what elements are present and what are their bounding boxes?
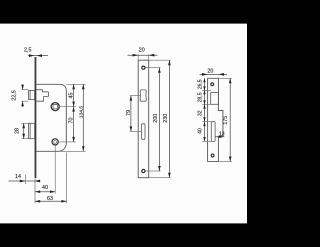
cylinder fixing hole <box>52 139 58 145</box>
top screw hole <box>142 66 145 69</box>
stacked dimension 56 <box>198 122 212 142</box>
latch opening (hourglass cutout) <box>140 90 146 101</box>
dimension 70 (spindle to cylinder hole) <box>69 107 75 142</box>
dimension 20 (faceplate width) <box>128 47 158 60</box>
dimension 45 (top to spindle center) <box>69 84 75 106</box>
faceplate (side, dark strip) <box>35 57 37 178</box>
svg-text:40: 40 <box>198 128 204 134</box>
svg-text:134,5: 134,5 <box>78 106 84 119</box>
centerline hole to dim line <box>59 141 77 143</box>
stacked dimension 32 <box>198 104 212 121</box>
dimension 40 (backset) <box>35 145 55 203</box>
svg-text:70: 70 <box>69 118 75 124</box>
dimension 175 (strike length) <box>219 78 232 161</box>
latch bolt head (left of faceplate) <box>29 90 35 99</box>
deadbolt opening (strike) <box>211 122 215 142</box>
dimension 2,5 (faceplate thickness) <box>24 47 48 57</box>
svg-text:175: 175 <box>223 116 229 125</box>
dimension 79 (latch to deadbolt centers) <box>126 96 142 132</box>
svg-text:22,5: 22,5 <box>11 90 17 101</box>
dimension 13 (lip) <box>216 132 225 138</box>
svg-text:20: 20 <box>207 68 213 74</box>
svg-text:28,5: 28,5 <box>198 92 204 102</box>
centerline spindle to dim line <box>60 106 76 108</box>
svg-text:26,5: 26,5 <box>198 79 204 89</box>
svg-text:2,5: 2,5 <box>24 47 32 53</box>
dimension 22,5 (latch height) <box>11 84 28 107</box>
deadbolt (left of faceplate) <box>29 123 35 138</box>
svg-text:14: 14 <box>15 174 21 180</box>
spindle follower (circle with square hole) <box>51 103 59 111</box>
black letterbox background <box>0 0 247 247</box>
latch bolt tail (right of faceplate) <box>36 90 48 102</box>
bottom screw hole (strike) <box>211 154 214 157</box>
svg-text:32: 32 <box>198 110 204 116</box>
white drawing sheet <box>0 24 247 224</box>
svg-text:28: 28 <box>14 128 20 134</box>
lock case body outline <box>36 84 66 151</box>
dimension 200 (screw hole centers) <box>146 68 161 171</box>
svg-text:79: 79 <box>126 110 132 116</box>
svg-text:45: 45 <box>69 93 75 99</box>
extension line body bottom <box>60 150 86 152</box>
dimension 14 (deadbolt throw) <box>9 174 41 184</box>
latch opening (strike) <box>211 93 219 105</box>
dimension 230 (faceplate length) <box>149 60 171 178</box>
dimension 134,5 (case height) <box>78 84 84 151</box>
extension line body top <box>67 83 86 85</box>
dimension 20 (strike width) <box>200 68 228 75</box>
svg-text:40: 40 <box>42 185 48 191</box>
strike plate outline with lip <box>208 78 223 161</box>
stacked dimension 34,5 <box>198 90 211 104</box>
deadbolt opening <box>142 124 146 140</box>
bottom screw hole <box>142 169 145 172</box>
top screw hole (strike) <box>211 83 214 86</box>
svg-text:200: 200 <box>153 114 159 123</box>
svg-text:20: 20 <box>139 47 145 53</box>
svg-text:63: 63 <box>47 196 53 202</box>
svg-text:230: 230 <box>163 114 169 123</box>
dimension 63 (case depth) <box>35 153 67 204</box>
faceplate front outline <box>138 60 149 178</box>
stacked dimension 26,5 (top to hole line) <box>198 78 211 90</box>
dimension 28 (deadbolt height) <box>14 123 28 138</box>
